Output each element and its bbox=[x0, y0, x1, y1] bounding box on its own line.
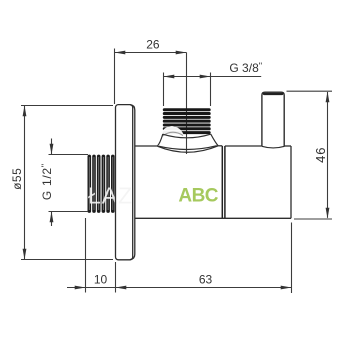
highlight inner arc bbox=[162, 132, 183, 136]
left pipe thread crest highlights bbox=[89, 157, 113, 210]
arrowhead dim G1/2 top bbox=[50, 144, 54, 155]
svg-text:G 1/2": G 1/2" bbox=[40, 163, 54, 200]
svg-text:46: 46 bbox=[313, 147, 328, 163]
left pipe G1/2 threads bbox=[88, 155, 115, 213]
arrowhead dim 46 bottom bbox=[326, 208, 330, 219]
valve body outline bbox=[135, 146, 291, 219]
dimension G 1/2 bbox=[49, 139, 89, 227]
dimension 26 bbox=[115, 49, 187, 105]
arrowhead dim 10 left bbox=[75, 286, 86, 290]
handle bbox=[262, 92, 285, 148]
dimension G 3/8 bbox=[164, 73, 262, 107]
centerline of top pipe bbox=[186, 53, 188, 155]
svg-text:ø55: ø55 bbox=[10, 168, 24, 190]
arrowhead dim G1/2 bottom bbox=[50, 212, 54, 223]
highlight on top threads bbox=[160, 126, 186, 139]
svg-text:10: 10 bbox=[94, 273, 108, 287]
svg-text:ABC: ABC bbox=[178, 186, 218, 207]
arrowhead dim diameter55 bottom bbox=[23, 249, 27, 260]
arrowhead dim G3/8 right bbox=[200, 75, 211, 79]
arrowhead dim G3/8 left bbox=[164, 75, 175, 79]
svg-text:63: 63 bbox=[199, 273, 213, 287]
svg-text:G 3/8": G 3/8" bbox=[229, 61, 262, 75]
dimension 10 and 63 bottom bbox=[67, 218, 292, 293]
arrowhead dim diameter55 top bbox=[23, 106, 27, 117]
dimension diameter 55 bbox=[21, 106, 113, 260]
handle top shading bbox=[263, 93, 284, 95]
arrowhead dim 26 right bbox=[176, 51, 187, 55]
top thread rim arc bbox=[163, 134, 211, 138]
arrowhead dim 63 right bbox=[281, 286, 292, 290]
arrowhead dim 26 left bbox=[115, 51, 126, 55]
arrowhead dim 10/63 shared bbox=[116, 286, 127, 290]
groove between body sections bbox=[222, 146, 225, 218]
top pipe G3/8 threads bbox=[163, 108, 211, 134]
svg-text:26: 26 bbox=[146, 37, 160, 51]
arrowhead dim 46 top bbox=[326, 92, 330, 103]
dimension 46 bbox=[287, 91, 333, 219]
svg-text:ŁAZ: ŁAZ bbox=[88, 183, 133, 209]
bell transition under top thread bbox=[157, 134, 218, 152]
flange rosette bbox=[116, 105, 135, 260]
